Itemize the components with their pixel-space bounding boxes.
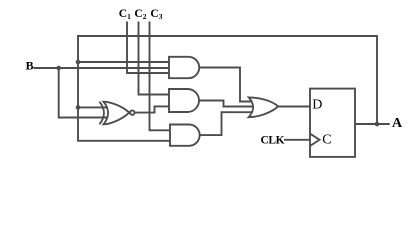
wire XNOR output to AND2 input 2 (135, 106, 170, 112)
xnor-gate U4 (A xnor B) (104, 102, 130, 125)
wire B tap vertical to XNOR input 2 (59, 68, 108, 118)
wire AND1 output to OR input 1 (199, 68, 252, 102)
wire A tap to AND1 input 1 (78, 61, 169, 63)
wire AND3 output to OR input 3 (200, 112, 253, 135)
wire B input horizontal (34, 67, 170, 69)
node junction dot A-tap AND1 (76, 60, 81, 65)
and-gate U2 (middle, C2·XNOR) (169, 89, 199, 112)
node junction dot A-tap XNOR (76, 105, 81, 110)
wire C1 vertical to AND1 input 3 (127, 22, 169, 74)
svg-text:C3: C3 (150, 8, 162, 21)
wire C3 vertical to AND3 input 1 (150, 22, 171, 131)
svg-text:D: D (312, 98, 322, 113)
wire OR output to D input (278, 106, 310, 108)
xnor extra input arc (99, 102, 104, 125)
svg-text:C: C (322, 133, 331, 148)
svg-text:C2: C2 (134, 8, 146, 21)
wire AND2 output to OR input 2 (199, 101, 254, 107)
wire A feedback: from output junction up, across top, down left side (78, 36, 377, 141)
wire A tap to XNOR input 1 (78, 106, 108, 108)
wire CLK input (284, 139, 310, 141)
wire flip-flop output to A (355, 123, 390, 125)
node junction dot on B wire (56, 66, 61, 71)
svg-text:A: A (392, 116, 403, 131)
flip-flop clock triangle (310, 134, 320, 146)
and-gate U3 (bottom, C3·A) (170, 125, 200, 146)
xnor output bubble (130, 110, 134, 114)
svg-text:CLK: CLK (261, 135, 285, 147)
flip-flop U6 box (310, 89, 355, 157)
and-gate U1 (top, 3-input A·B·C1) (169, 57, 199, 78)
or-gate U5 (249, 97, 279, 117)
wire C2 vertical to AND2 input 1 (139, 22, 170, 95)
svg-text:B: B (26, 59, 34, 73)
svg-text:C1: C1 (119, 8, 131, 21)
node junction dot on output (375, 122, 380, 127)
